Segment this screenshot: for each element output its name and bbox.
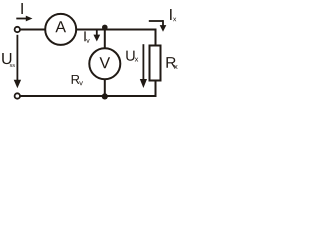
- wire resistor bottom lead: [155, 81, 157, 98]
- label Ix: [170, 9, 176, 21]
- current arrow I (top left): [16, 16, 32, 22]
- voltage arrow Ux (across Rx): [140, 44, 147, 88]
- label Rv (voltmeter resistance): [72, 75, 83, 85]
- label Ux: [126, 51, 138, 62]
- ammeter A1 circle: [45, 14, 76, 45]
- label Rx: [166, 57, 177, 69]
- terminal bottom-left open circle: [15, 93, 20, 98]
- wire bottom horizontal: [20, 95, 156, 97]
- ammeter A1 letter A: [55, 21, 66, 32]
- current arrow Iv (into voltmeter): [93, 31, 100, 42]
- wire voltmeter branch vertical: [104, 30, 106, 97]
- label Iv: [84, 31, 89, 42]
- voltmeter V1 circle: [89, 48, 120, 79]
- terminal top-left open circle: [15, 27, 20, 32]
- current arrow Ix (top right, bent down): [149, 20, 167, 32]
- wire right vertical lead into Rx: [155, 29, 157, 46]
- label I (main current): [21, 3, 22, 14]
- junction node bottom (voltmeter to wire): [102, 93, 108, 99]
- junction node top (wire to voltmeter): [102, 25, 108, 31]
- resistor Rx rectangle: [150, 46, 161, 81]
- wire top horizontal: [20, 29, 156, 31]
- voltmeter V1 letter V: [100, 57, 111, 68]
- label Uss: [2, 53, 15, 67]
- voltage arrow Uss (left, downward): [14, 35, 21, 89]
